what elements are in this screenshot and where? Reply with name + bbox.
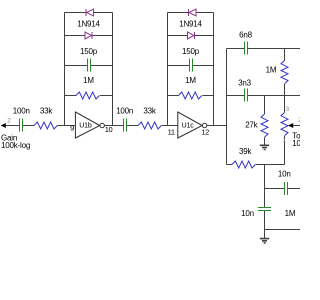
wire bottom branch xyxy=(265,229,301,231)
diode D2 1N914 xyxy=(65,35,113,37)
wire 39k branch xyxy=(227,164,285,166)
svg-text:2: 2 xyxy=(298,117,300,124)
svg-text:1N914: 1N914 xyxy=(77,20,100,29)
ground 27k xyxy=(260,145,269,149)
potentiometer Tone 100k xyxy=(284,96,286,165)
svg-text:U1c: U1c xyxy=(182,122,195,129)
resistor R1 33k xyxy=(34,122,57,129)
svg-text:12: 12 xyxy=(201,127,209,136)
svg-text:1M: 1M xyxy=(185,76,196,85)
feedback box U1c left edge xyxy=(167,13,169,126)
svg-text:U1b: U1b xyxy=(79,122,92,129)
capacitor C8 10n xyxy=(285,182,288,195)
wire C2 to R2 xyxy=(127,125,138,127)
svg-text:10n: 10n xyxy=(241,209,254,218)
diode D3 1N914 xyxy=(168,12,214,14)
svg-text:3n3: 3n3 xyxy=(238,79,251,88)
svg-text:150p: 150p xyxy=(182,47,200,56)
svg-text:100n: 100n xyxy=(116,106,133,115)
resistor R3 1M xyxy=(65,95,113,97)
resistor R7 39k xyxy=(232,161,255,168)
wire R1 to U1b pin9 xyxy=(57,125,75,127)
capacitor C7 10n vertical xyxy=(258,208,271,211)
resistor R5 1M vertical xyxy=(284,49,286,96)
op-amp U1b inverter xyxy=(75,112,99,138)
svg-text:10n: 10n xyxy=(278,169,291,178)
svg-text:100k: 100k xyxy=(292,139,300,148)
wire 3n3 branch xyxy=(227,95,301,97)
svg-text:27k: 27k xyxy=(245,121,258,130)
feedback box U1c right edge xyxy=(213,13,215,126)
svg-text:6n8: 6n8 xyxy=(239,31,252,40)
resistor R2 33k xyxy=(138,122,161,129)
svg-text:33k: 33k xyxy=(40,106,53,115)
diode D4 1N914 xyxy=(168,35,214,37)
pot wiper arrow xyxy=(293,125,300,127)
svg-text:33k: 33k xyxy=(143,106,156,115)
svg-text:100n: 100n xyxy=(13,106,30,115)
svg-text:2: 2 xyxy=(7,118,11,125)
svg-text:1M: 1M xyxy=(266,66,277,75)
capacitor C3 150p xyxy=(65,65,113,67)
wire U1c out to node xyxy=(207,125,227,127)
feedback box U1b right edge xyxy=(112,13,114,126)
wire port to C1 xyxy=(6,125,20,127)
wire R2 to U1c pin11 xyxy=(162,125,178,127)
wire C1 to R1 xyxy=(23,125,34,127)
capacitor C6 3n3 xyxy=(245,89,248,102)
wire U1b out to C2 xyxy=(104,125,123,127)
capacitor C2 100n xyxy=(124,119,127,132)
op-amp U1c inverter xyxy=(178,112,202,138)
output bubble U1c xyxy=(202,123,206,127)
wire below C7 xyxy=(264,211,266,239)
ground bottom xyxy=(260,239,269,243)
feedback box U1b left edge xyxy=(64,13,66,126)
wire 6n8 branch xyxy=(227,48,301,50)
diode D1 1N914 xyxy=(65,12,113,14)
resistor R6 27k vertical xyxy=(264,96,266,146)
svg-text:150p: 150p xyxy=(80,47,98,56)
output bubble U1b xyxy=(100,123,104,127)
svg-text:9: 9 xyxy=(70,124,74,133)
svg-text:100k-log: 100k-log xyxy=(1,141,30,150)
svg-text:1M: 1M xyxy=(83,76,94,85)
node vertical bus xyxy=(226,49,228,165)
resistor R4 1M xyxy=(168,95,214,97)
svg-text:39k: 39k xyxy=(239,147,252,156)
svg-text:11: 11 xyxy=(168,127,175,136)
wire 10n top branch xyxy=(265,188,301,190)
capacitor C1 100n xyxy=(20,119,23,132)
svg-text:1N914: 1N914 xyxy=(179,20,202,29)
capacitor C4 150p xyxy=(168,65,214,67)
port 2 Gain arrow xyxy=(1,123,6,128)
svg-text:1M: 1M xyxy=(285,209,296,218)
node junction vertical xyxy=(264,165,266,208)
svg-text:3: 3 xyxy=(286,106,290,113)
svg-text:10: 10 xyxy=(105,125,113,134)
capacitor C5 6n8 xyxy=(245,42,248,55)
svg-text:1: 1 xyxy=(282,137,286,144)
